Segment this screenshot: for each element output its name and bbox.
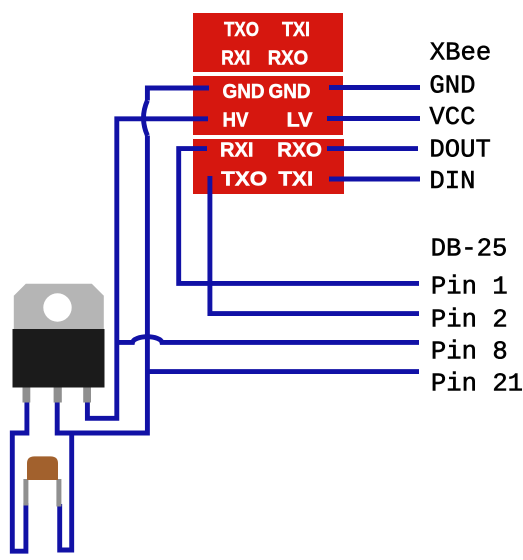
svg-text:Pin 21: Pin 21 (431, 369, 523, 398)
svg-text:TXI: TXI (282, 18, 310, 41)
svg-text:RXO: RXO (268, 47, 309, 70)
svg-text:XBee: XBee (430, 39, 491, 68)
svg-text:TXO: TXO (221, 168, 267, 191)
svg-text:GND: GND (429, 72, 475, 101)
svg-text:RXI: RXI (220, 139, 254, 162)
svg-text:GND: GND (269, 80, 311, 103)
svg-text:RXI: RXI (221, 47, 250, 70)
svg-text:Pin 1: Pin 1 (431, 272, 508, 301)
svg-text:Pin 2: Pin 2 (431, 306, 508, 335)
svg-text:DOUT: DOUT (429, 136, 490, 165)
svg-text:DIN: DIN (429, 167, 475, 196)
svg-text:TXO: TXO (224, 18, 259, 41)
svg-text:LV: LV (287, 109, 313, 132)
svg-text:VCC: VCC (429, 103, 475, 132)
svg-text:DB-25: DB-25 (431, 235, 508, 264)
svg-text:Pin 8: Pin 8 (431, 338, 508, 367)
svg-text:HV: HV (223, 109, 249, 132)
svg-text:GND: GND (223, 80, 265, 103)
svg-text:TXI: TXI (278, 168, 313, 191)
svg-text:RXO: RXO (277, 139, 322, 162)
